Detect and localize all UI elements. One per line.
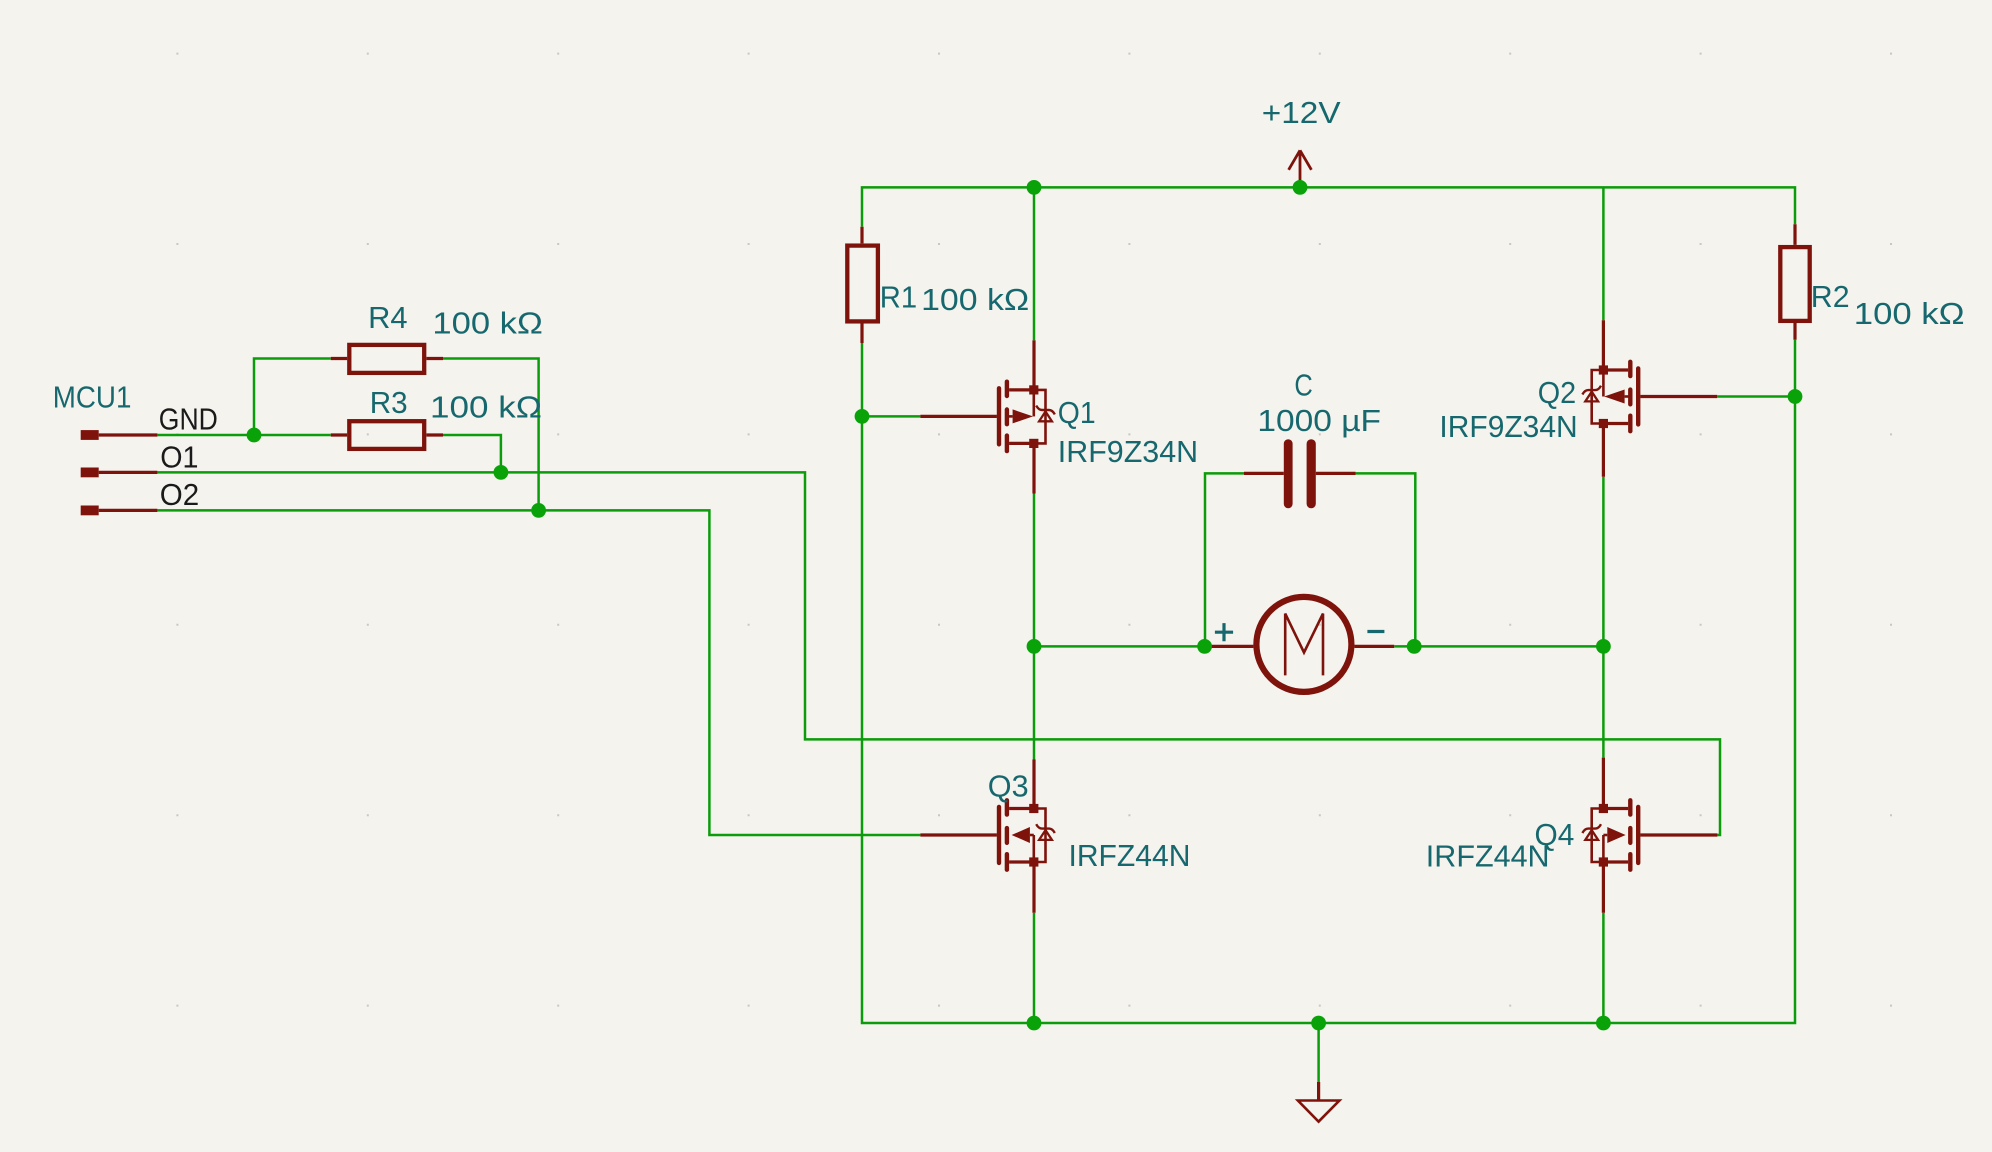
svg-text:IRFZ44N: IRFZ44N xyxy=(1426,840,1550,874)
svg-text:R2: R2 xyxy=(1811,280,1850,314)
svg-text:O2: O2 xyxy=(160,478,199,512)
svg-text:O1: O1 xyxy=(160,440,198,474)
svg-text:+12V: +12V xyxy=(1262,96,1342,130)
svg-text:100 kΩ: 100 kΩ xyxy=(430,390,542,424)
svg-text:100 kΩ: 100 kΩ xyxy=(432,306,542,340)
svg-text:C: C xyxy=(1294,368,1312,402)
svg-text:GND: GND xyxy=(159,403,218,437)
svg-text:Q1: Q1 xyxy=(1058,396,1096,430)
svg-text:R3: R3 xyxy=(370,386,408,420)
svg-text:IRF9Z34N: IRF9Z34N xyxy=(1439,410,1577,444)
svg-text:1000 µF: 1000 µF xyxy=(1257,404,1381,438)
svg-text:IRF9Z34N: IRF9Z34N xyxy=(1058,435,1198,469)
svg-text:R1: R1 xyxy=(880,280,917,314)
svg-text:R4: R4 xyxy=(368,301,408,335)
svg-text:MCU1: MCU1 xyxy=(53,381,132,415)
svg-text:IRFZ44N: IRFZ44N xyxy=(1069,839,1191,873)
svg-text:Q2: Q2 xyxy=(1538,376,1576,410)
svg-text:100 kΩ: 100 kΩ xyxy=(1854,297,1965,331)
svg-text:Q3: Q3 xyxy=(988,770,1029,804)
svg-text:100 kΩ: 100 kΩ xyxy=(921,283,1029,317)
